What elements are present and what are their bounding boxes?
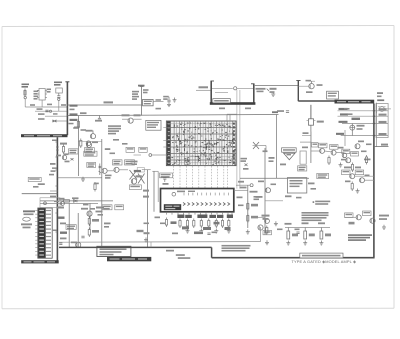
shield bar bottom left — [21, 260, 59, 263]
label g11 — [105, 148, 111, 150]
label box thermal — [282, 148, 297, 152]
diode pair g18 — [99, 164, 102, 176]
box thermistor RT121 — [143, 99, 154, 105]
label g20 — [94, 183, 99, 185]
ground h30 — [356, 189, 360, 194]
transistor Q523 — [265, 219, 270, 224]
relay K401 box — [307, 119, 316, 125]
label g19 — [105, 175, 112, 179]
label j4 — [57, 207, 104, 209]
label g28 — [110, 153, 116, 155]
label R122 — [132, 96, 139, 100]
capacitor C139 — [286, 111, 289, 113]
capacitor C105 — [45, 110, 51, 112]
box input gate — [40, 198, 60, 208]
label box g17 — [87, 162, 96, 167]
label h19 — [258, 181, 276, 186]
label feed — [270, 88, 277, 93]
label h26 — [358, 141, 372, 146]
label row3 left — [339, 121, 348, 123]
label P470 — [377, 99, 384, 101]
wire vert 147 — [147, 170, 149, 248]
wire q163 row — [57, 177, 101, 179]
variable cap X2 — [137, 168, 144, 184]
label Q133 — [122, 114, 141, 116]
resistor network below U470 — [179, 219, 230, 229]
shield bar top right — [335, 100, 375, 104]
label R534 — [302, 222, 315, 236]
wire right mid vert1 — [264, 148, 266, 235]
label box j2 — [66, 225, 76, 230]
label j9 — [96, 211, 104, 216]
wire A row3 — [45, 115, 67, 117]
ground i10 — [246, 230, 250, 235]
label j6 — [60, 232, 67, 234]
label h20 — [254, 196, 261, 200]
label i4 — [214, 222, 220, 225]
label m2 arrow — [136, 175, 142, 177]
label box g4 — [84, 151, 97, 156]
transistor Q304 — [331, 150, 336, 155]
label pin box 6 — [227, 215, 233, 219]
shield bathtub left wall — [211, 81, 214, 104]
wire h left row — [300, 141, 312, 143]
label box g2 — [69, 149, 79, 154]
label TO DELAY LINE — [176, 254, 191, 259]
label g16 — [65, 161, 70, 163]
label g27 — [113, 139, 128, 145]
label i16 — [172, 233, 178, 235]
label R121 — [132, 91, 139, 95]
label pin box 3 — [197, 215, 207, 219]
label box l1 — [345, 213, 354, 218]
diode CR161 — [71, 158, 74, 160]
shield wall vertical lower — [56, 137, 58, 261]
label box g9 — [160, 173, 173, 178]
label h25 — [338, 147, 344, 149]
label q94b — [306, 80, 312, 82]
resistor R137 — [77, 120, 79, 130]
ground C123 — [167, 102, 171, 107]
resistor R316 — [351, 163, 353, 173]
wire mid row — [240, 177, 309, 179]
transistor Q94 — [308, 81, 315, 89]
label Q94 — [306, 84, 323, 93]
transistor Q335 — [342, 153, 347, 158]
label q142 — [92, 141, 98, 143]
current source Q new — [350, 124, 355, 136]
label j10 — [104, 223, 111, 228]
label h16 — [243, 168, 249, 170]
label X pair — [131, 161, 138, 165]
label j13 — [71, 242, 77, 244]
label current source — [357, 125, 365, 130]
label g15 — [56, 155, 61, 157]
diode CR253 — [245, 164, 248, 167]
page edge right — [393, 26, 395, 309]
shield wall vertical upper — [66, 82, 68, 135]
wire right top stub — [375, 103, 377, 113]
label on long wire — [277, 110, 284, 112]
label box l2 — [363, 211, 372, 216]
resistor R321 — [351, 182, 353, 192]
label l9 — [295, 229, 300, 231]
diode CR104 — [53, 120, 57, 122]
wire g top link — [78, 141, 101, 143]
label i1 — [171, 221, 177, 224]
label bath box — [213, 99, 231, 103]
transistor Q197 — [61, 202, 65, 206]
op-amp U470 label box — [164, 204, 181, 210]
op-amp U470 top pins — [184, 193, 229, 196]
capacitor C478 — [207, 233, 210, 235]
resistor R152 — [80, 139, 82, 149]
label i9 — [251, 204, 258, 219]
resistor R523 — [266, 226, 268, 236]
op-amp U470 bottom pins — [167, 212, 233, 215]
wire m left stub — [134, 154, 142, 156]
wire j row1 — [40, 200, 113, 202]
label h24 — [311, 188, 317, 190]
node A input junction — [24, 96, 26, 98]
resistor R533 — [287, 228, 290, 240]
label i2 — [182, 226, 189, 229]
wire A row1 — [31, 106, 67, 108]
label X star — [263, 150, 268, 152]
wire l top — [285, 227, 330, 229]
label +100V supply right — [70, 105, 78, 111]
transistor Q133 — [128, 118, 133, 123]
connector J401 dark column — [38, 208, 46, 258]
thermal delta TD470 — [284, 153, 295, 160]
wire K401 riser — [310, 105, 312, 163]
capacitor C533 — [296, 232, 299, 234]
label j12 — [60, 238, 67, 240]
page edge bottom — [2, 307, 394, 310]
wire j vert2 — [77, 213, 79, 247]
label g24 — [50, 163, 56, 165]
label box g13 — [139, 147, 147, 152]
label +15V supply right — [70, 113, 78, 115]
wire input drop — [25, 99, 31, 107]
label box h8 — [342, 149, 350, 153]
wire vert 158 — [157, 171, 159, 202]
label i17 — [212, 232, 218, 234]
label -15V supply right — [70, 119, 78, 121]
transistor Q405 — [76, 242, 81, 247]
wire out right — [255, 85, 298, 87]
label b6 — [69, 123, 80, 128]
wire matrix feeds top — [227, 114, 237, 121]
shield bar SHIELD label — [21, 134, 68, 137]
label h32 — [303, 132, 309, 134]
wire RT121 to C123 — [153, 101, 163, 103]
wire X star right — [260, 146, 267, 153]
label a7 — [53, 113, 58, 115]
wire j vert3 — [89, 203, 91, 230]
label shield left pins — [49, 170, 56, 175]
wire q164 row — [107, 170, 128, 171]
label box g6 — [125, 160, 135, 165]
connector P470 box — [376, 104, 388, 138]
shield riser vertical — [297, 81, 299, 102]
label row3 right — [379, 121, 387, 123]
label j7 — [54, 197, 79, 202]
label i3 — [203, 227, 211, 230]
wire to edge — [384, 108, 391, 110]
shield left ticks — [55, 142, 57, 232]
connector circle h — [250, 184, 253, 187]
delay line driver box — [97, 246, 131, 256]
label k2 — [166, 250, 174, 252]
ground l3 — [382, 225, 386, 230]
ground R533 — [286, 241, 290, 246]
diode CR402 — [74, 200, 78, 203]
resistor R172 — [94, 182, 96, 192]
connector P1 circle — [378, 107, 386, 112]
resistor R534 — [304, 228, 307, 240]
label h13 — [364, 159, 371, 161]
note SEE PARTS LIST — [348, 234, 372, 241]
label i8 — [238, 181, 258, 193]
label h29 — [345, 175, 370, 183]
label i11 — [256, 196, 263, 198]
label e6 — [348, 113, 353, 115]
wire right mid vert2 — [275, 115, 277, 179]
label i7 — [143, 190, 149, 198]
wire row -15V — [342, 123, 388, 125]
label row1 right — [379, 108, 387, 110]
wire 115 rail — [67, 115, 278, 116]
label m3 — [59, 198, 65, 200]
label row4 right — [379, 133, 387, 135]
label row2 text — [37, 108, 43, 110]
wire h k401 row — [302, 132, 311, 143]
label C101 column — [34, 91, 39, 100]
label box g3 — [85, 148, 95, 153]
label box h6 — [319, 143, 328, 148]
label h18 — [280, 164, 286, 166]
wire mid drop — [101, 139, 103, 247]
label box h9 — [351, 152, 359, 156]
resistor R406 — [88, 217, 90, 227]
label out2 — [257, 89, 270, 93]
transistor Q152 — [86, 142, 91, 147]
page edge left — [1, 27, 3, 309]
wire h row2 — [255, 216, 265, 218]
label box DL termination — [327, 91, 339, 99]
connector J401 pin names — [46, 210, 51, 256]
label shield pin — [52, 140, 57, 232]
capacitor C408 — [59, 243, 62, 245]
transistor Q173 — [131, 179, 136, 184]
transistor Q163 — [102, 168, 107, 173]
label box bias — [352, 118, 361, 120]
label j3 — [92, 219, 99, 233]
label box h1 — [298, 166, 307, 171]
label C121 — [143, 89, 149, 93]
label C123 — [163, 96, 169, 100]
capacitor C176 — [163, 178, 166, 183]
label h10 — [344, 167, 361, 169]
label i14 — [155, 217, 161, 219]
label box g8 — [129, 185, 141, 190]
label box on shield — [300, 253, 343, 258]
wire ground return — [22, 193, 58, 195]
wire row +15V — [338, 115, 389, 117]
shield bathtub bottom — [210, 102, 256, 105]
wire inside bath — [212, 88, 233, 92]
ground h4 — [274, 221, 278, 226]
label row1 left — [339, 108, 348, 110]
label J401 left3 — [21, 223, 32, 228]
op-amp U470 input pin circle — [172, 191, 195, 196]
wire k vert — [260, 227, 262, 242]
connector dots bus — [373, 110, 375, 137]
resistor R101 — [24, 89, 26, 97]
shield bottom step — [211, 247, 213, 257]
wire row gnd — [341, 135, 388, 137]
wire h row3 — [311, 151, 344, 153]
wire g right1 — [142, 169, 151, 171]
wire A row2 — [35, 110, 67, 112]
label delay arrow — [272, 111, 278, 113]
wire right of U470 vert — [247, 185, 249, 228]
transistor Q314 — [355, 144, 360, 149]
connector P401 oval — [23, 217, 31, 221]
transistor Q143 — [90, 131, 95, 139]
wire branch right — [374, 146, 389, 148]
transistor Q283 — [258, 225, 263, 230]
capacitor C131 — [95, 116, 102, 122]
wire matrix left ticks — [163, 128, 166, 148]
label g25 — [50, 196, 56, 198]
label R103 text — [54, 82, 62, 86]
shield riser top tick — [296, 80, 300, 82]
resistor R478 — [247, 202, 249, 212]
wire stub — [50, 190, 57, 192]
label box h5 — [312, 143, 319, 147]
label g14 — [64, 153, 69, 155]
label VOLTS-DIV box — [146, 120, 161, 130]
wire +105 rail — [67, 104, 141, 106]
label branch — [381, 144, 388, 146]
label i6 — [194, 232, 203, 235]
shield bottom left segment — [59, 246, 212, 248]
ground out wire — [271, 92, 275, 97]
capacitor C123 — [167, 97, 170, 102]
transistor Q325 — [360, 178, 365, 183]
resistor R479 — [247, 214, 249, 224]
wire A row4 — [52, 120, 67, 122]
label pin box 2 — [185, 215, 192, 218]
label i12 — [237, 197, 243, 199]
bus shield right vertical — [373, 104, 375, 258]
shield horiz to bar — [298, 100, 336, 102]
label j5 — [58, 217, 65, 219]
note text block right — [302, 212, 329, 221]
label a6 — [47, 104, 52, 106]
label row4 text — [38, 118, 45, 120]
note text above shield — [222, 245, 251, 252]
label pin box 4 — [209, 215, 216, 218]
label h28 — [361, 151, 367, 153]
transistor Q403 — [87, 211, 92, 216]
resistor R407 — [88, 228, 90, 238]
label m1 arrow — [134, 170, 141, 172]
label l8 — [277, 229, 283, 231]
ground l7 — [265, 240, 269, 245]
bus companion wire — [376, 105, 378, 147]
label m5 — [144, 223, 150, 225]
wire h drop1 — [344, 130, 346, 146]
label +75V — [138, 85, 145, 87]
wire u470 right link — [234, 185, 250, 190]
connector J150 circle — [234, 87, 237, 90]
label R533 — [285, 223, 299, 236]
connector J401 wire stubs — [35, 210, 38, 255]
label K101 text — [47, 89, 52, 93]
wire B drop — [42, 100, 59, 111]
transistor Q142 — [86, 141, 91, 146]
label i15 — [160, 223, 166, 225]
label arrows left — [134, 170, 141, 177]
op-amp U470 emitter arrows — [183, 202, 230, 205]
label box g5 — [113, 160, 123, 165]
label h31 — [302, 147, 308, 149]
resistor R141 — [62, 145, 64, 155]
transistor Q324 — [350, 174, 355, 179]
ground h14 — [339, 163, 343, 168]
label d5 — [219, 108, 225, 110]
label pin box 5 — [217, 215, 223, 218]
wire delay top row — [227, 114, 237, 116]
tall box relay — [300, 151, 306, 164]
wire matrix left tap — [149, 154, 166, 157]
transistor Q533 — [356, 215, 361, 220]
wire vert 154 — [153, 171, 155, 212]
label h17 — [269, 157, 275, 162]
label l4 — [379, 215, 389, 220]
wire +75V vertical — [141, 87, 143, 116]
wire h cross1 — [265, 200, 283, 202]
label h21 — [285, 195, 292, 197]
label r137 — [73, 127, 86, 131]
capacitor C404 — [81, 236, 84, 238]
label below IC left — [137, 230, 150, 234]
resistor R311 — [328, 156, 330, 166]
shield bottom right segment — [212, 257, 375, 259]
label right top — [377, 92, 383, 97]
wire input left — [196, 89, 210, 91]
transistor Q164 — [114, 167, 119, 172]
label a5 — [30, 104, 35, 106]
label box g21 — [102, 205, 112, 210]
label h23 — [308, 183, 315, 185]
label b5 — [61, 104, 66, 106]
connector circle j1 — [44, 202, 47, 205]
label J401 left1 — [23, 210, 35, 212]
ground g7 — [81, 177, 85, 182]
resistor R535 — [320, 228, 323, 240]
label J401 left2 — [24, 213, 34, 215]
label j8 — [83, 204, 89, 206]
label box g22 — [115, 205, 124, 210]
note text block services — [108, 125, 121, 134]
shield wall tick — [65, 81, 69, 83]
label row3 text — [38, 113, 45, 115]
ground R535 — [319, 241, 323, 246]
